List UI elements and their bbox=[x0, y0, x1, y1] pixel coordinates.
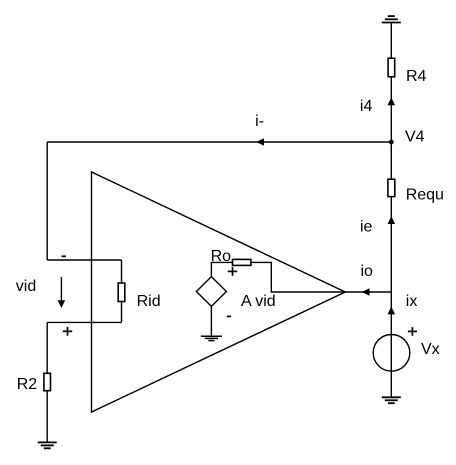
current arrow ie bbox=[388, 216, 396, 224]
svg-text:Requ: Requ bbox=[406, 187, 444, 204]
svg-text:R4: R4 bbox=[406, 68, 427, 85]
wire noninverting input horizontal bbox=[47, 321, 121, 323]
svg-text:io: io bbox=[361, 263, 374, 280]
label - (dependent source bottom) bbox=[227, 315, 231, 317]
svg-text:A vid: A vid bbox=[241, 293, 276, 310]
wire R2 to ground bbox=[46, 391, 48, 443]
wire Ro to op-amp output bbox=[251, 262, 345, 292]
svg-text:i-: i- bbox=[255, 113, 264, 130]
wire top ground to R4 bbox=[390, 23, 392, 59]
node V4 bbox=[389, 140, 394, 145]
ground (below dependent source) bbox=[201, 336, 222, 340]
wire Rid top bbox=[121, 260, 123, 283]
ground (bottom left, below R2) bbox=[38, 442, 57, 448]
ground (bottom right, below Vx) bbox=[382, 397, 401, 403]
wire left vertical down to inverting input bbox=[46, 142, 48, 260]
resistor Rid bbox=[118, 283, 125, 302]
wire diamond bottom to ground bbox=[210, 306, 212, 336]
current arrow ix bbox=[388, 307, 396, 315]
svg-text:ix: ix bbox=[406, 293, 418, 310]
voltage arrow vid bbox=[60, 277, 62, 301]
svg-text:ie: ie bbox=[360, 218, 373, 235]
current arrow i4 bbox=[388, 97, 396, 105]
wire Requ to output node bbox=[390, 197, 392, 292]
svg-text:V4: V4 bbox=[405, 129, 425, 146]
wire diamond top to Ro bbox=[211, 262, 232, 276]
label + (dependent source top) bbox=[228, 267, 237, 276]
wire inverting input horizontal bbox=[47, 259, 121, 261]
resistor R2 bbox=[44, 373, 51, 390]
wire op-amp output to rail bbox=[345, 291, 391, 293]
svg-text:R2: R2 bbox=[17, 376, 38, 393]
svg-text:vid: vid bbox=[16, 278, 36, 295]
current arrow i- bbox=[256, 138, 264, 146]
label + (noninverting input) bbox=[63, 327, 72, 336]
wire feedback V4 to left bbox=[47, 141, 391, 143]
label + (Vx polarity) bbox=[408, 327, 417, 336]
resistor Ro bbox=[233, 259, 251, 265]
ground (top, above R4) bbox=[382, 16, 401, 22]
wire output node down to Vx and ground bbox=[390, 292, 392, 397]
wire V4 to Requ bbox=[390, 142, 392, 179]
svg-text:Ro: Ro bbox=[211, 248, 232, 265]
source Vx circle bbox=[373, 335, 410, 372]
label - (inverting input) bbox=[62, 255, 66, 257]
svg-text:i4: i4 bbox=[360, 98, 373, 115]
wire R4 to node V4 bbox=[390, 77, 392, 142]
op-amp U1 triangle bbox=[92, 172, 346, 412]
svg-text:Rid: Rid bbox=[137, 293, 161, 310]
wire down to R2 bbox=[46, 322, 48, 373]
resistor R4 bbox=[388, 58, 395, 77]
current arrow io bbox=[362, 288, 370, 296]
svg-text:Vx: Vx bbox=[421, 341, 440, 358]
dependent source A vid (diamond) bbox=[196, 277, 226, 307]
resistor Requ bbox=[388, 179, 395, 196]
wire Rid bottom bbox=[121, 302, 123, 323]
